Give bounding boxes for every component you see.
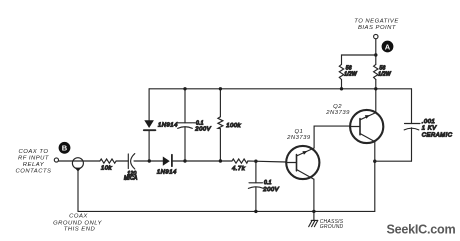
svg-text:BIAS POINT: BIAS POINT [358,25,396,31]
svg-text:0.1: 0.1 [264,180,272,186]
svg-text:TO NEGATIVE: TO NEGATIVE [354,19,399,25]
label Q2 2N3739 [325,104,350,116]
svg-text:COAX TO: COAX TO [19,149,49,155]
node A [382,41,394,53]
label 0.1 200V (bottom cap) [262,180,279,193]
svg-text:100k: 100k [226,123,241,129]
resistor R1 10k [100,159,116,163]
svg-text:GROUND: GROUND [320,224,344,230]
svg-text:200V: 200V [194,126,211,132]
svg-text:1/2W: 1/2W [378,72,392,78]
svg-text:1/2W: 1/2W [344,72,358,78]
resistor R5 56 1/2W (right) [374,64,378,88]
diode D1 1N914 (vertical branch) [144,89,156,161]
label TO NEGATIVE BIAS POINT [354,19,399,32]
chassis ground symbol [309,211,318,226]
wire collector node to C5 [375,160,412,162]
wire Q2 emitter up to rail [375,89,377,113]
svg-text:THIS END: THIS END [64,227,96,233]
svg-text:SeekIC.com: SeekIC.com [387,223,456,237]
transistor Q1 2N3739 [286,146,319,179]
label CHASSIS GROUND [320,219,344,230]
junction dot [148,159,151,162]
wire Q1 emitter to Q2 base [314,126,350,148]
junction dot [219,159,222,162]
junction dot [374,87,377,90]
junction dot [312,210,315,213]
label COAX TO RF INPUT RELAY CONTACTS [16,149,52,175]
label 56 1/2W (left) [344,66,358,78]
capacitor C5 .001 1KV CERAMIC [404,89,420,161]
svg-text:2N3739: 2N3739 [286,135,311,141]
junction dot [254,210,257,213]
node B [59,142,71,154]
resistor R3 4.7k [232,159,248,163]
label COAX GROUND ONLY THIS END [53,213,102,232]
svg-text:CONTACTS: CONTACTS [16,169,52,175]
svg-text:0.1: 0.1 [196,120,204,126]
wire C1 to node [134,160,163,162]
wire Q2 collector down to ground rail [374,142,376,212]
wire input to 10k [59,160,100,162]
capacitor C1 120 MICA [128,154,135,169]
svg-text:MICA: MICA [124,176,138,182]
svg-text:.001: .001 [422,119,435,125]
wire branch left [342,55,376,64]
diode D2 1N914 (horizontal) [163,155,185,166]
wire 10k to C1 [116,160,128,162]
svg-text:2N3739: 2N3739 [325,110,350,116]
svg-text:200V: 200V [262,187,279,193]
junction dot [219,87,222,90]
wire top rail [149,88,411,90]
label Q1 2N3739 [286,129,311,141]
svg-text:COAX: COAX [69,213,88,219]
svg-text:1N914: 1N914 [157,169,177,175]
wire terminal down [375,39,377,65]
svg-text:GROUND ONLY: GROUND ONLY [53,220,102,226]
svg-text:RF INPUT: RF INPUT [18,156,49,162]
junction dot [373,160,376,163]
svg-text:1N914: 1N914 [158,123,178,129]
label 0.1 200V (top cap) [193,120,212,132]
label .001 1KV CERAMIC [422,119,453,138]
junction dot [374,53,377,56]
junction dot [254,160,257,163]
junction dot [183,87,186,90]
svg-text:CERAMIC: CERAMIC [422,132,453,138]
svg-text:1 KV: 1 KV [422,126,437,132]
transistor Q2 2N3739 [350,110,383,143]
svg-text:4.7k: 4.7k [232,166,246,172]
svg-text:RELAY: RELAY [23,162,45,168]
label 120 MICA [124,171,138,182]
junction dot [340,87,343,90]
label 56 1/2W (right) [378,66,392,78]
svg-text:A: A [385,42,391,51]
node B terminal (input) [54,158,58,162]
wire bottom ground rail [78,210,375,212]
wire Q1 collector down [313,179,315,211]
svg-text:B: B [62,144,68,153]
capacitor C3 0.1 200V (bottom branch) [248,161,263,211]
junction dot [183,159,186,162]
resistor R2 100k (vertical) [218,89,223,161]
coax shield symbol [72,158,83,212]
svg-text:10k: 10k [101,166,113,172]
wire 4.7k to Q1 base [248,161,287,162]
wire to 100k branch [185,160,232,162]
capacitor C2 0.1 200V (top branch) [178,89,193,161]
resistor R4 56 1/2W (left) [339,64,343,88]
bias terminal [374,34,378,38]
